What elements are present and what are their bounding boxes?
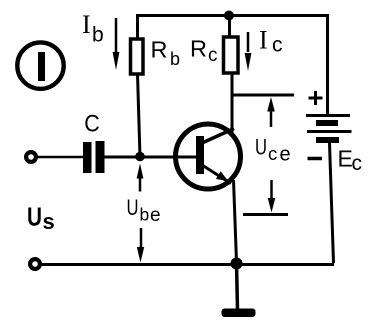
- terminal input bottom: [30, 259, 40, 269]
- label Us: [27, 202, 55, 235]
- label Rb: [151, 37, 181, 70]
- svg-text:I: I: [259, 26, 268, 55]
- voltage arrow Uce: [233, 95, 294, 215]
- svg-text:I: I: [82, 10, 91, 39]
- svg-text:b: b: [92, 24, 104, 47]
- wire ground stub: [237, 263, 238, 310]
- svg-text:C: C: [84, 111, 100, 138]
- figure number badge circle 1: [17, 42, 63, 88]
- capacitor C: [83, 141, 105, 173]
- wire input to capacitor: [38, 156, 84, 159]
- svg-text:c: c: [208, 45, 218, 66]
- wire top rail: [136, 14, 328, 17]
- svg-text:s: s: [43, 209, 55, 234]
- label Rc: [190, 36, 218, 67]
- wire capacitor to base: [105, 156, 198, 159]
- transistor Q1: [176, 124, 241, 189]
- svg-text:b: b: [170, 49, 180, 69]
- svg-text:U: U: [27, 202, 42, 232]
- wire bottom rail: [41, 263, 335, 266]
- label Uce: [255, 135, 291, 166]
- node emitter bottom junction: [231, 258, 243, 270]
- resistor Rb: [131, 39, 144, 74]
- label Ec: [338, 146, 363, 176]
- svg-text:U: U: [127, 195, 139, 220]
- svg-text:e: e: [280, 144, 291, 166]
- terminal input top: [26, 152, 36, 162]
- node top junction: [224, 11, 234, 21]
- resistor Rc: [224, 37, 239, 73]
- svg-text:c: c: [268, 143, 277, 164]
- wire Rc top stub: [228, 16, 231, 38]
- wire Rc bottom to collector: [231, 73, 234, 135]
- svg-text:c: c: [352, 152, 363, 175]
- ground: [222, 309, 256, 318]
- wire right rail bottom: [330, 143, 334, 263]
- current arrow Ib: [113, 18, 120, 70]
- current arrow Ic: [245, 32, 252, 71]
- svg-text:R: R: [190, 36, 207, 62]
- svg-text:R: R: [151, 37, 168, 63]
- node base junction: [135, 152, 145, 162]
- label Ib: [82, 10, 104, 47]
- voltage arrow Ube: [137, 164, 145, 263]
- wire Rb top stub: [136, 16, 139, 40]
- wire right rail top: [326, 14, 329, 114]
- svg-text:U: U: [255, 135, 267, 160]
- wire Rb bottom to base node: [138, 74, 141, 157]
- label Ic: [259, 26, 283, 57]
- wire emitter down: [234, 180, 237, 262]
- svg-text:c: c: [272, 34, 283, 57]
- label Ube: [127, 195, 161, 226]
- svg-text:b: b: [140, 205, 150, 225]
- battery Ec: [306, 91, 352, 159]
- svg-text:e: e: [150, 205, 161, 226]
